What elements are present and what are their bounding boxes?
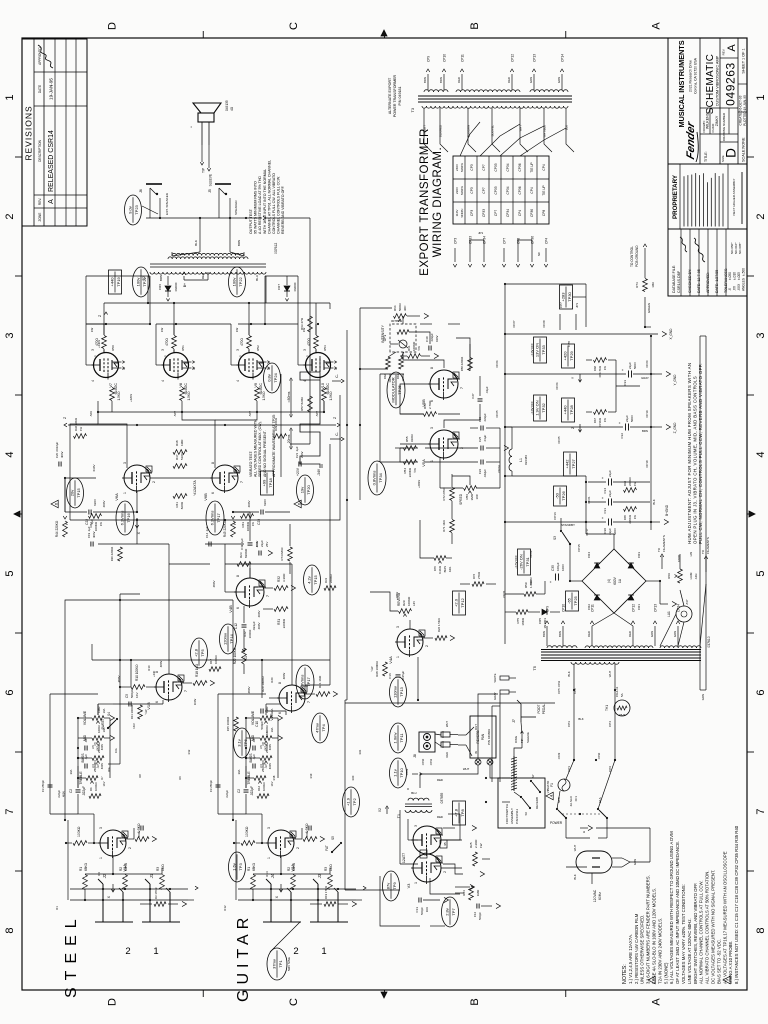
- svg-text:CP3: CP3: [470, 210, 474, 216]
- svg-text:1.) V1,2,4,5 ARE 12AX7A.: 1.) V1,2,4,5 ARE 12AX7A.: [628, 934, 633, 984]
- screen resistor 470 ohm V8: [160, 324, 185, 352]
- wire preamp B+ vertical rail: [92, 644, 330, 698]
- net flag X2 reverb: [378, 806, 389, 814]
- svg-text:RELEASED CSR14: RELEASED CSR14: [48, 130, 55, 192]
- svg-text:TREBLE: TREBLE: [79, 771, 83, 785]
- svg-text:CP34: CP34: [506, 163, 510, 171]
- svg-text:240V: 240V: [455, 164, 459, 171]
- wire footswitch to pedal: [514, 722, 522, 797]
- volume wire to next stage: [77, 704, 113, 719]
- foot pedal jack J7: [512, 700, 546, 723]
- svg-text:OUTPUT TEST:: OUTPUT TEST:: [249, 208, 253, 234]
- svg-text:CP36: CP36: [518, 186, 522, 194]
- svg-text:R63 47Ω: R63 47Ω: [300, 317, 304, 330]
- svg-text:R20: R20: [270, 677, 274, 683]
- oval test point TP11: [390, 723, 407, 753]
- svg-text:R66: R66: [623, 480, 627, 486]
- svg-text:FILAMENTS: FILAMENTS: [706, 537, 710, 554]
- svg-text:400V: 400V: [268, 744, 272, 750]
- output test note: [249, 160, 285, 234]
- svg-text:CUSTOM VIBROSONIC AMP: CUSTOM VIBROSONIC AMP: [716, 55, 720, 106]
- wire heater bus pair: [700, 336, 706, 700]
- svg-text:Z: Z: [98, 315, 102, 317]
- triode V6A: [114, 462, 156, 501]
- svg-text:.02μF: .02μF: [485, 386, 489, 393]
- svg-text:R1: R1: [247, 867, 251, 871]
- resistor R43 100K left: [241, 514, 256, 532]
- wire mixer bus verticals: [98, 544, 244, 600]
- svg-text:1W: 1W: [235, 328, 239, 333]
- svg-text:TP33: TP33: [541, 344, 546, 354]
- svg-text:+283: +283: [561, 292, 566, 302]
- svg-text:C24: C24: [478, 469, 482, 475]
- svg-text:IN: IN: [474, 751, 478, 754]
- svg-text:CP16: CP16: [553, 512, 557, 520]
- svg-text:C-: C-: [335, 374, 339, 378]
- box test point TP26: [554, 486, 567, 506]
- svg-text:LINE VOLTAGE AT 120VAC 60Hz.: LINE VOLTAGE AT 120VAC 60Hz.: [687, 918, 692, 984]
- triode V3A 12AT7: [407, 850, 447, 888]
- notes text block: [622, 825, 739, 984]
- svg-text:3MΩ: 3MΩ: [470, 493, 474, 500]
- svg-text:CP33: CP33: [494, 186, 498, 194]
- svg-text:+442: +442: [565, 459, 570, 469]
- svg-text:50/60Hz: 50/60Hz: [461, 162, 464, 172]
- svg-text:VIOLET: VIOLET: [423, 125, 427, 135]
- svg-text:S4: S4: [107, 712, 111, 716]
- box test point TP29: [562, 344, 575, 368]
- svg-text:RING: RING: [514, 736, 518, 743]
- svg-text:1KV: 1KV: [265, 731, 269, 737]
- svg-text:480V: 480V: [282, 673, 286, 680]
- svg-text:8: 8: [278, 682, 282, 684]
- svg-text:½W: ½W: [417, 346, 421, 351]
- svg-text:.022μF: .022μF: [430, 333, 434, 342]
- svg-text:R51: R51: [181, 345, 185, 351]
- svg-text:1MΩ: 1MΩ: [265, 706, 269, 713]
- resistor R24 1M: [462, 886, 480, 900]
- svg-text:TP9: TP9: [392, 882, 397, 890]
- svg-text:TP11: TP11: [399, 733, 404, 743]
- resistor R61 100K: [407, 341, 421, 358]
- svg-text:10C: 10C: [475, 493, 479, 499]
- oval test point TP1: [267, 948, 291, 980]
- svg-text:100v: 100v: [231, 278, 236, 287]
- svg-text:630V: 630V: [93, 499, 97, 506]
- svg-text:NEXT HIGHER ASSEMBLY: NEXT HIGHER ASSEMBLY: [732, 178, 736, 215]
- net flag X1 mixer: [242, 644, 248, 660]
- svg-text:JP1: JP1: [478, 231, 484, 235]
- svg-text:R16: R16: [257, 785, 261, 791]
- mid band caps cluster: [55, 418, 304, 466]
- extra voltage labels power: [97, 340, 421, 677]
- export primary leads: [423, 108, 575, 152]
- svg-text:1KV: 1KV: [135, 692, 139, 698]
- input jack J3: [310, 873, 348, 957]
- svg-text:B: B: [469, 22, 481, 29]
- svg-text:.1μF: .1μF: [84, 754, 88, 760]
- svg-text:R18: R18: [272, 775, 276, 780]
- wire V4B plate up: [225, 544, 236, 592]
- resistor R19 17K: [140, 888, 187, 907]
- wire V4A cathode: [423, 618, 455, 640]
- svg-text:CP5: CP5: [557, 688, 561, 694]
- svg-text:R22: R22: [243, 631, 247, 637]
- svg-text:R15 100KΩ: R15 100KΩ: [226, 717, 230, 732]
- svg-text:100V: 100V: [193, 699, 197, 706]
- svg-text:C3 250pF: C3 250pF: [209, 780, 213, 793]
- grid resistor 1.5K V9: [255, 388, 266, 413]
- svg-text:V2B: V2B: [269, 713, 274, 721]
- svg-text:J8: J8: [413, 754, 417, 758]
- to control pcb ground group: [630, 244, 655, 328]
- svg-text:Y: Y: [571, 376, 575, 379]
- cap C16: [388, 671, 405, 682]
- svg-text:20ms: 20ms: [287, 434, 291, 443]
- triode V5A: [421, 427, 464, 467]
- svg-text:1: 1: [93, 355, 97, 357]
- mid pot 10K: [246, 725, 283, 744]
- wire PI bus: [65, 478, 290, 512]
- svg-text:C27: C27: [471, 393, 475, 399]
- vibrato bug wires: [390, 332, 430, 356]
- svg-text:CP4: CP4: [518, 210, 522, 216]
- wire V3 grid feed: [430, 878, 460, 926]
- triode V3B 12AT7: [402, 825, 447, 863]
- wire volume to V1B grid: [98, 704, 163, 715]
- svg-text:TP13: TP13: [399, 686, 404, 696]
- svg-text:CP7: CP7: [559, 302, 563, 308]
- svg-text:BRN: BRN: [558, 631, 562, 637]
- svg-text:CONTROLS FULL CW. ALL VIBRATO: CONTROLS FULL CW. ALL VIBRATO: [272, 173, 276, 234]
- svg-text:R9: R9: [178, 776, 182, 780]
- svg-text:R44 220KΩ: R44 220KΩ: [55, 520, 59, 537]
- svg-text:CP3: CP3: [470, 187, 474, 193]
- triode V6B: [193, 462, 244, 501]
- svg-text:1W: 1W: [633, 481, 637, 486]
- svg-text:R63: R63: [396, 374, 400, 380]
- svg-text:CP3: CP3: [454, 238, 458, 244]
- svg-text:R32: R32: [277, 576, 281, 582]
- svg-text:51KΩ: 51KΩ: [180, 452, 184, 460]
- svg-text:BLK/YEL: BLK/YEL: [491, 125, 495, 137]
- resistor R38 51K: [173, 439, 187, 455]
- triode V2B: [269, 682, 311, 721]
- resistor R15 100K: [226, 717, 238, 732]
- svg-text:NO.005*: NO.005*: [738, 242, 742, 254]
- tone caps: [245, 737, 256, 778]
- svg-text:4A.SLO: 4A.SLO: [569, 795, 573, 806]
- svg-text:STANDBY: STANDBY: [561, 523, 575, 527]
- svg-text:CP21: CP21: [587, 496, 591, 503]
- svg-text:R1: R1: [79, 867, 83, 871]
- svg-text:RED: RED: [628, 631, 632, 637]
- svg-text:BLK/GRN: BLK/GRN: [467, 125, 471, 137]
- svg-text:UNLESS OTHERWISE SPECIFIED.: UNLESS OTHERWISE SPECIFIED.: [640, 915, 645, 984]
- junction dots buses: [64, 323, 597, 821]
- svg-text:8: 8: [236, 575, 240, 577]
- svg-text:.1μF: .1μF: [252, 754, 256, 760]
- svg-text:R12: R12: [223, 905, 227, 911]
- svg-text:CP20: CP20: [645, 360, 649, 367]
- svg-text:TP4: TP4: [321, 724, 326, 732]
- svg-text:2: 2: [296, 847, 300, 849]
- svg-text:CP3: CP3: [470, 164, 474, 170]
- svg-text:Fender: Fender: [685, 120, 697, 161]
- svg-text:INTENSITY: INTENSITY: [381, 324, 385, 342]
- svg-text:1MΩ: 1MΩ: [97, 706, 101, 713]
- power tube V8 6L6GC: [161, 349, 196, 395]
- svg-text:R31: R31: [324, 577, 328, 583]
- svg-text:WHT: WHT: [573, 845, 577, 852]
- svg-text:R28 100KΩ: R28 100KΩ: [375, 660, 379, 676]
- svg-text:+440: +440: [152, 670, 156, 677]
- svg-text:7: 7: [184, 690, 188, 692]
- tip sleeve arrows: [200, 145, 212, 186]
- cap value labels ch1: [57, 742, 97, 798]
- ground return arrows: [505, 328, 677, 525]
- wire to grid V1A: [85, 856, 162, 875]
- svg-text:CP34: CP34: [506, 186, 510, 194]
- resistor R41 820: [173, 494, 187, 510]
- svg-text:7: 7: [266, 595, 270, 597]
- svg-text:100KΩ: 100KΩ: [94, 782, 98, 791]
- svg-text:HUM ADJUSTMENT: ADJUST FOR MIN: HUM ADJUSTMENT: ADJUST FOR MINIMUM HUM F…: [687, 363, 692, 544]
- svg-text:1.6v: 1.6v: [231, 863, 236, 871]
- svg-text:R57 820Ω: R57 820Ω: [300, 396, 304, 410]
- svg-text:R19: R19: [309, 773, 313, 778]
- box test point TP33: [530, 337, 547, 363]
- svg-text:S6: S6: [524, 812, 528, 816]
- svg-text:BRN: BRN: [159, 275, 163, 281]
- cap C5 500pF: [125, 689, 139, 706]
- svg-text:TP23: TP23: [134, 204, 139, 214]
- svg-text:400V: 400V: [102, 500, 106, 507]
- JP strap and CP7 CP8 right: [559, 302, 579, 347]
- svg-text:1MΩ: 1MΩ: [476, 889, 480, 896]
- svg-text:1W: 1W: [633, 515, 637, 520]
- choke feed wires: [505, 427, 586, 522]
- resistor R2 68K: [287, 862, 296, 889]
- svg-text:CP17: CP17: [585, 528, 589, 535]
- oval test point TP20: [297, 475, 314, 505]
- oval test point TP17b: [296, 665, 314, 699]
- wire export table to transformer: [460, 122, 566, 156]
- svg-text:1W: 1W: [603, 418, 607, 423]
- svg-text:1.5KΩ: 1.5KΩ: [187, 391, 191, 401]
- svg-text:.022μF: .022μF: [82, 786, 86, 796]
- svg-text:049135: 049135: [225, 100, 229, 111]
- resistor R68 bias feed: [593, 358, 607, 378]
- svg-text:A: A: [48, 199, 55, 204]
- oval test point TP4: [312, 713, 329, 743]
- resistor R31 220K: [263, 607, 288, 629]
- vibrato wires: [400, 384, 509, 488]
- svg-text:480V: 480V: [247, 686, 251, 693]
- heater wires: [660, 584, 706, 646]
- svg-text:POWER TRANSFORMER: POWER TRANSFORMER: [393, 74, 397, 117]
- svg-text:400V: 400V: [268, 763, 272, 769]
- input jack J4: [263, 873, 301, 957]
- svg-text:120VAC: 120VAC: [593, 889, 597, 902]
- svg-text:LA1: LA1: [667, 611, 671, 617]
- wire center spine: [345, 330, 348, 700]
- revisions table: [22, 39, 87, 226]
- svg-text:BLK: BLK: [652, 499, 656, 504]
- svg-text:R1: R1: [55, 906, 59, 910]
- svg-text:10A: 10A: [270, 727, 274, 732]
- svg-text:CP4: CP4: [608, 721, 612, 727]
- resistor R16 100K ch2: [257, 782, 269, 798]
- svg-text:X1: X1: [244, 656, 248, 660]
- resistor R23 820K: [237, 548, 251, 578]
- oval test point TP16: [116, 501, 134, 535]
- svg-text:T2A IN 230V AND 240V MODELS.: T2A IN 230V AND 240V MODELS.: [657, 918, 662, 984]
- svg-text:13V ON: 13V ON: [535, 343, 540, 357]
- svg-text:D: D: [107, 998, 119, 1006]
- wire bias distribution: [420, 520, 452, 558]
- svg-text:1.8Vrms: 1.8Vrms: [299, 675, 304, 690]
- triode V1B: [146, 671, 188, 710]
- svg-text:1MΩ: 1MΩ: [329, 864, 333, 871]
- svg-text:CR2: CR2: [587, 604, 591, 610]
- svg-text:C33: C33: [623, 380, 627, 386]
- svg-text:R76: R76: [472, 573, 476, 579]
- input jack J1: [142, 873, 180, 957]
- filter cap C33: [505, 362, 655, 386]
- svg-text:A: A: [650, 998, 662, 1006]
- svg-text:22μF: 22μF: [608, 490, 612, 497]
- svg-text:037855: 037855: [440, 792, 444, 803]
- svg-text:S5: S5: [331, 836, 335, 840]
- svg-text:6: 6: [755, 689, 767, 695]
- svg-text:TP28: TP28: [569, 404, 574, 414]
- cap C12b: [205, 526, 211, 546]
- svg-text:D: D: [107, 22, 119, 30]
- wire input jack buses: [70, 888, 188, 901]
- svg-text:R7: R7: [100, 776, 104, 780]
- V2B plate resistor: [261, 676, 279, 698]
- svg-text:TP21: TP21: [142, 276, 147, 286]
- triode V1A: [98, 827, 132, 872]
- svg-text:T5: T5: [532, 665, 537, 670]
- svg-text:.XX: .XX: [733, 285, 737, 291]
- svg-text:SCHEMATIC: SCHEMATIC: [705, 54, 716, 115]
- diode CR7 R3000: [277, 276, 297, 301]
- svg-text:CP28: CP28: [542, 320, 546, 327]
- plate resistor 100K V1A: [65, 826, 100, 845]
- svg-text:C25: C25: [478, 436, 482, 442]
- svg-text:TREBLE: TREBLE: [247, 771, 251, 785]
- svg-text:R65: R65: [623, 515, 627, 521]
- CP labels filter: [555, 360, 649, 535]
- svg-text:CP25: CP25: [557, 436, 561, 443]
- screen bus wire: [329, 303, 331, 309]
- grid flag X: [275, 884, 283, 898]
- svg-text:WHT: WHT: [445, 721, 449, 727]
- reverb pan box: [470, 716, 496, 765]
- wire plate V10 to OT: [298, 324, 306, 365]
- svg-text:1W: 1W: [99, 522, 103, 527]
- V4B coupling to PI: [225, 512, 259, 578]
- triode V2A: [266, 827, 300, 872]
- CP labels middle: [495, 320, 577, 694]
- svg-text:CP11: CP11: [591, 604, 595, 612]
- svg-text:1: 1: [163, 355, 167, 357]
- svg-text:2: 2: [755, 213, 767, 219]
- svg-text:400V: 400V: [62, 791, 66, 797]
- svg-text:JP1: JP1: [575, 302, 579, 308]
- wire plate V9 to OT: [231, 324, 239, 365]
- svg-text:1: 1: [123, 492, 127, 494]
- svg-text:400V: 400V: [92, 531, 96, 538]
- svg-text:25V: 25V: [265, 542, 269, 547]
- svg-text:GRN: GRN: [673, 631, 677, 637]
- resistor R37 51K: [173, 452, 187, 469]
- svg-text:6.2Vrms: 6.2Vrms: [119, 511, 124, 526]
- svg-text:SHEET 1 OF 1: SHEET 1 OF 1: [742, 48, 746, 73]
- svg-text:110mv: 110mv: [392, 686, 397, 698]
- power tube V9 6L6GC: [236, 349, 271, 395]
- channel loop bus wire guitar: [232, 600, 234, 820]
- power switch S1: [550, 797, 608, 833]
- svg-text:J6: J6: [139, 189, 143, 193]
- svg-text:5: 5: [267, 368, 271, 370]
- power transformer T5: [532, 636, 711, 670]
- svg-text:CP29: CP29: [557, 752, 561, 759]
- svg-text:R75: R75: [516, 618, 520, 624]
- svg-text:.022μF: .022μF: [225, 790, 229, 799]
- svg-text:FULL CW, NORMAL CH, CONTROLS F: FULL CW, NORMAL CH, CONTROLS FULL CCW, R…: [698, 363, 703, 544]
- ring tip sleeve labels: [514, 731, 530, 748]
- svg-text:1N4003: 1N4003: [543, 618, 547, 629]
- output transformer T2: [141, 243, 278, 281]
- svg-text:-34V: -34V: [317, 468, 321, 476]
- svg-text:30A: 30A: [237, 769, 241, 774]
- svg-text:LIN: LIN: [412, 601, 416, 606]
- svg-text:CREATED:6-OCT-93: CREATED:6-OCT-93: [739, 95, 743, 125]
- svg-text:.XXX: .XXX: [737, 283, 741, 291]
- wire V3 plates to T1: [400, 810, 418, 864]
- oval test point TP14: [220, 624, 237, 654]
- svg-text:GRN: GRN: [701, 694, 705, 700]
- screen bus vertical: [98, 276, 330, 335]
- svg-text:1W: 1W: [160, 328, 164, 333]
- svg-text:OPEN PLUG IN J3, VIBRATO CH, V: OPEN PLUG IN J3, VIBRATO CH, VOLUME, MID…: [693, 376, 698, 544]
- svg-text:TP32: TP32: [541, 402, 546, 412]
- export CP stubs: [453, 231, 548, 267]
- svg-text:CP11: CP11: [461, 54, 465, 62]
- svg-text:±.500: ±.500: [742, 268, 746, 276]
- svg-text:R10: R10: [147, 665, 151, 671]
- svg-text:2: 2: [425, 645, 429, 647]
- svg-text:PLOTTED:19-JAN-95: PLOTTED:19-JAN-95: [743, 95, 747, 126]
- svg-text:R21 1KΩ: R21 1KΩ: [318, 675, 322, 688]
- filter cap C32: [505, 415, 655, 439]
- svg-text:C14 .1μF: C14 .1μF: [205, 526, 209, 538]
- resistor R11 100K: [130, 705, 148, 719]
- svg-text:1KV: 1KV: [425, 907, 429, 912]
- svg-text:TO CONTROL: TO CONTROL: [630, 246, 634, 267]
- zone row ticks and letters: [107, 22, 663, 1006]
- wire input ground bus: [68, 820, 236, 900]
- vibrato caps C24 C25 C26: [478, 413, 487, 478]
- alternate export transformer label: [388, 74, 402, 117]
- wire reverb driver feed: [417, 657, 419, 701]
- svg-text:C: C: [288, 998, 300, 1006]
- OT primary lead labels: [159, 275, 259, 281]
- svg-text:DATE: 12-7-95: DATE: 12-7-95: [697, 269, 701, 293]
